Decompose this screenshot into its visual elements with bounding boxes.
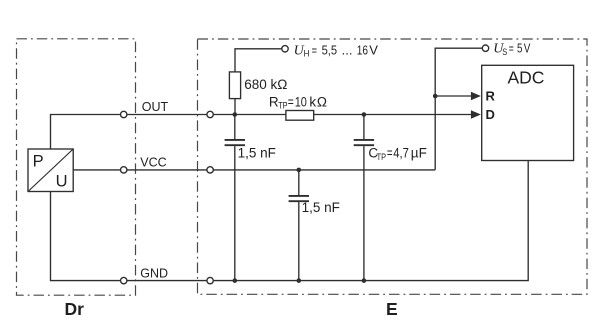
capacitor C2 1,5 nF (VCC to GND) [289,170,309,281]
svg-text:GND: GND [140,267,168,281]
svg-text:Dr: Dr [65,299,85,319]
svg-text:1,5 nF: 1,5 nF [302,200,340,215]
svg-text:R: R [486,89,496,104]
terminal GND sensor side [121,277,127,283]
node GND/C2 junction [297,278,302,283]
capacitor CTP 4,7 uF (OUT to GND) [354,115,374,281]
terminal US supply [482,45,488,51]
terminal OUT ecu side [207,111,213,117]
svg-text:CTP=4,7µF: CTP=4,7µF [368,146,426,162]
node OUT/680k/C1 junction [233,112,238,117]
terminal UH supply [282,46,288,52]
wire VCC horizontal [73,169,435,171]
svg-text:US=5V: US=5V [493,41,530,57]
node OUT/CTP junction [362,112,367,117]
wire OUT horizontal [51,115,477,150]
svg-text:680 kΩ: 680 kΩ [244,77,287,92]
terminal GND ecu side [207,277,213,283]
arrow into pin R [471,92,481,100]
svg-text:U: U [56,173,68,191]
node GND/C1 junction [233,278,238,283]
capacitor C1 1,5 nF (OUT to GND) [225,115,245,281]
resistor RTP 10k horizontal [286,111,314,121]
terminal VCC sensor side [121,167,127,173]
svg-text:E: E [386,299,398,319]
node GND/CTP junction [362,278,367,283]
node US/R junction [433,94,438,99]
svg-text:1,5 nF: 1,5 nF [238,146,276,161]
svg-text:RTP=10kΩ: RTP=10kΩ [269,94,327,110]
resistor R 680k vertical [229,72,240,99]
svg-text:OUT: OUT [142,100,169,114]
svg-text:D: D [486,107,495,122]
svg-text:ADC: ADC [508,68,545,88]
wire R branch to ADC [435,95,471,97]
terminal OUT sensor side [121,111,127,117]
node VCC/C2 junction [297,168,302,173]
transducer P/U box [28,149,73,192]
arrow into pin D [471,110,481,118]
wire US vertical to VCC and R branch [435,48,482,170]
svg-text:VCC: VCC [140,155,166,169]
svg-text:P: P [33,152,44,170]
box E (evaluation circuit enclosure, dash-dot) [198,39,588,294]
wire UH supply to resistor top [235,49,282,115]
box Dr (sensor enclosure, dash-dot) [17,39,136,295]
svg-text:UH=5,5...16V: UH=5,5...16V [294,42,379,58]
ADC U1 box [482,65,574,160]
terminal VCC ecu side [207,167,213,173]
wire GND horizontal [51,161,529,281]
